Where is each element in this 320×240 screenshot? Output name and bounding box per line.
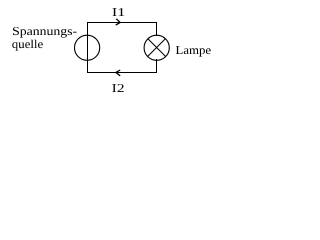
- lamp cross diagonal 1: [148, 39, 166, 57]
- wire: bottom horizontal (node 2): [87, 72, 157, 74]
- label Spannungsquelle line 1: [13, 27, 77, 37]
- label Spannungsquelle line 2: [12, 40, 43, 51]
- current arrow I2 (points left): [116, 70, 120, 76]
- label Lampe: [176, 46, 211, 57]
- voltage source circle: [75, 35, 100, 60]
- wire: left vertical through source: [87, 22, 89, 73]
- label I1: [113, 8, 125, 16]
- lamp circle: [144, 35, 169, 60]
- wire: top horizontal (node 1): [87, 22, 157, 24]
- label I2: [112, 84, 124, 92]
- wire: right vertical upper stub to lamp: [156, 22, 158, 36]
- lamp cross diagonal 2: [148, 39, 166, 57]
- wire: right vertical lower stub from lamp: [156, 59, 158, 73]
- current arrow I1 (points right): [116, 19, 121, 25]
